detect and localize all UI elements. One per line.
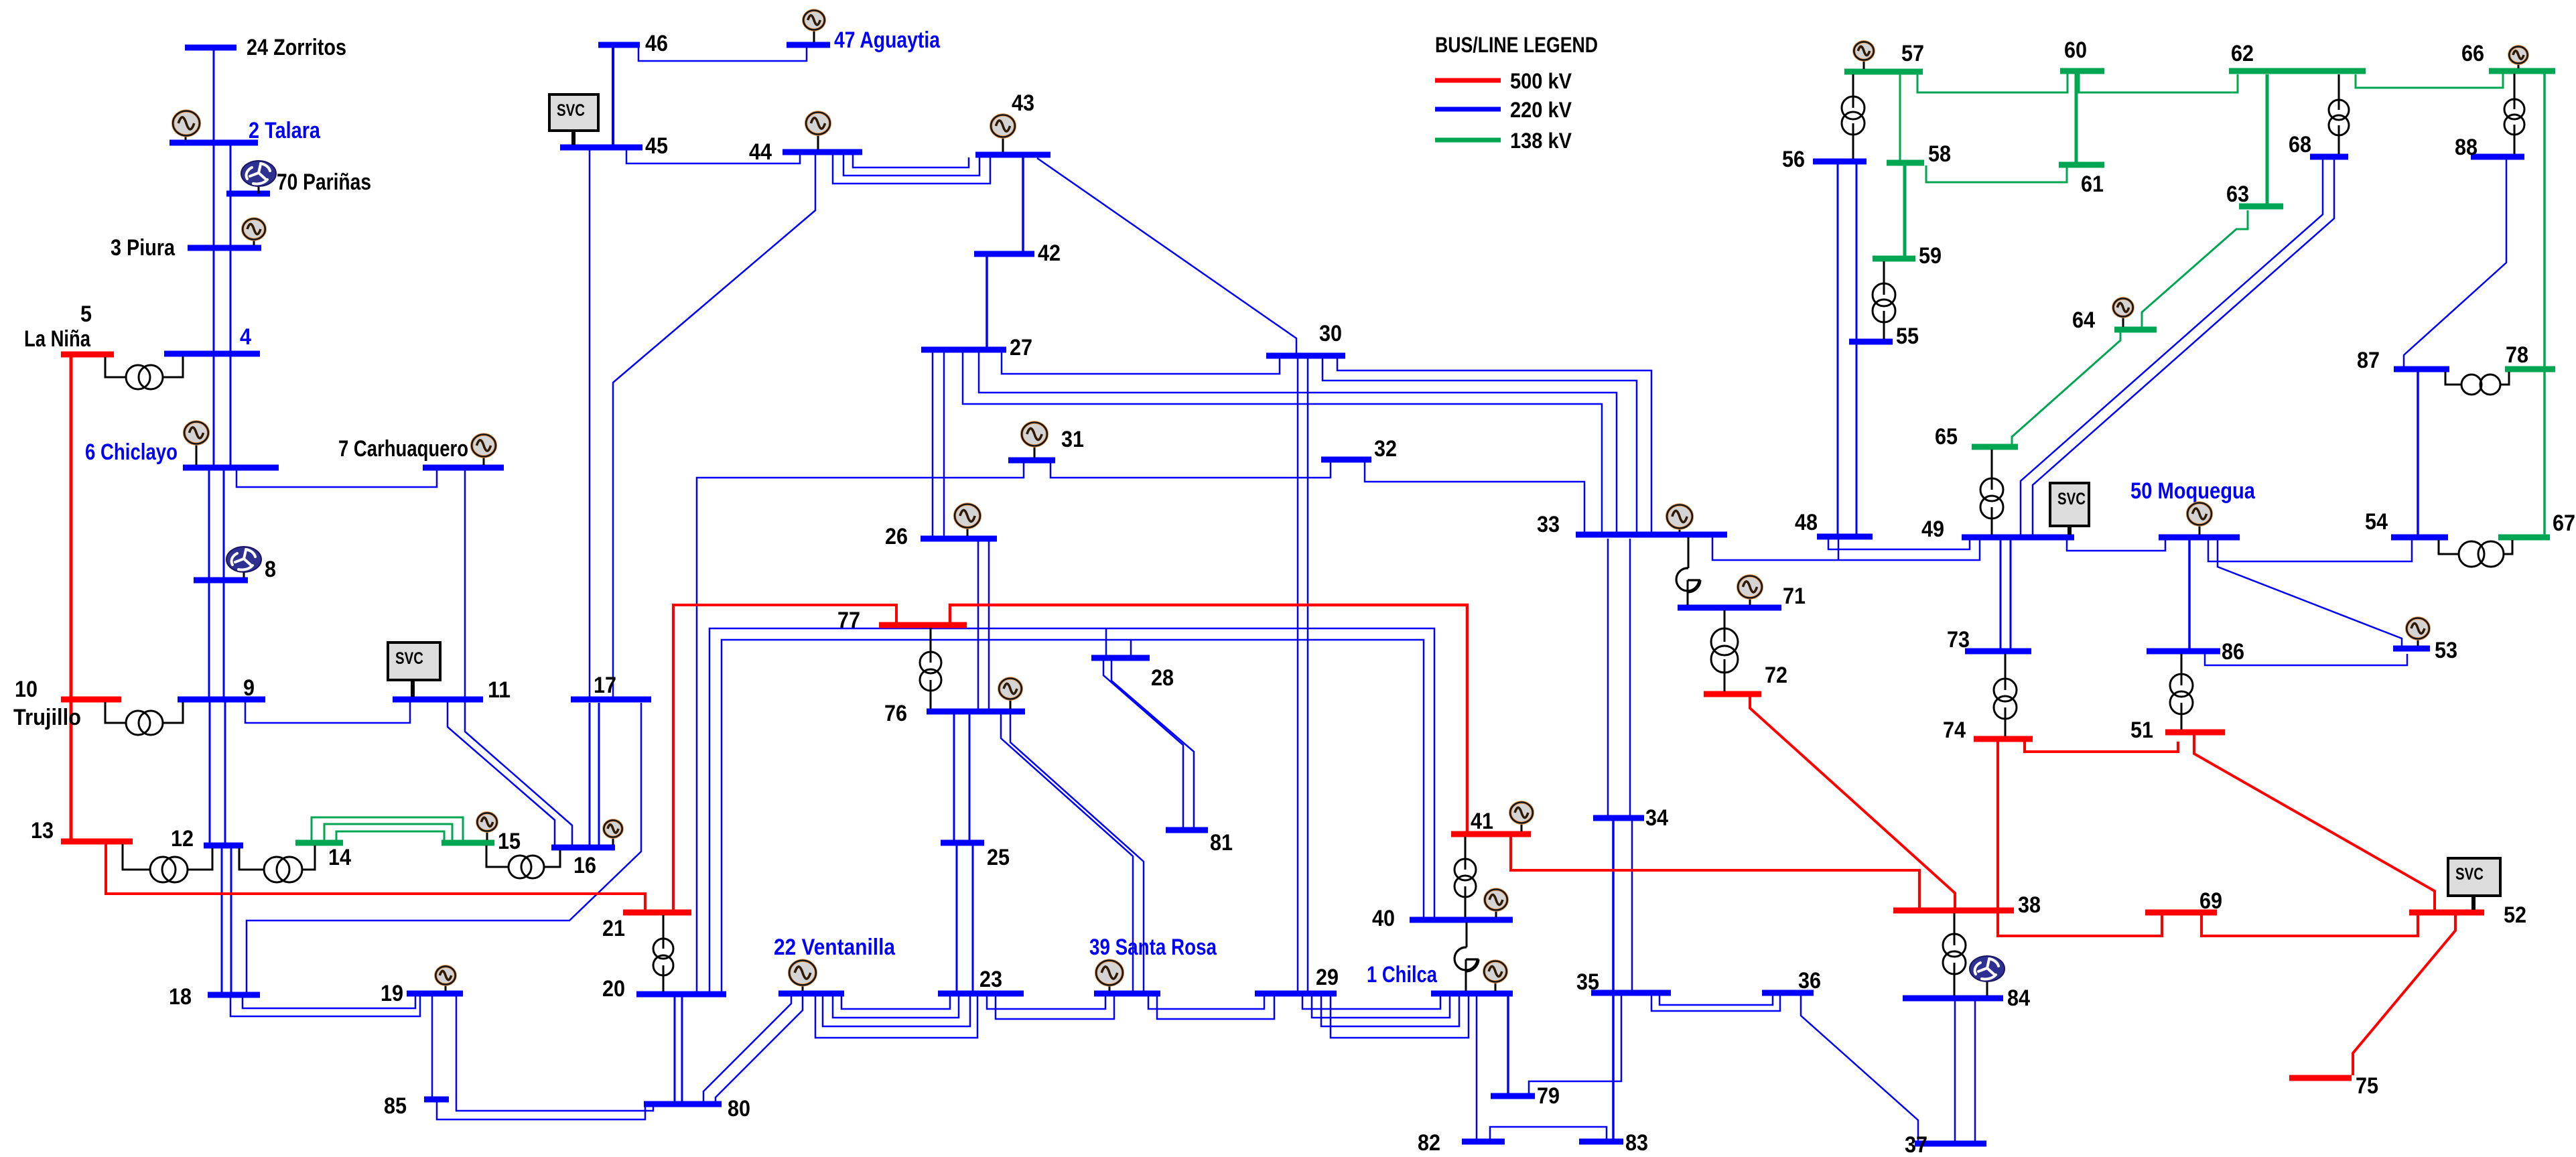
generator G33 bbox=[1667, 505, 1692, 533]
wire 14-15 a bbox=[312, 817, 463, 841]
svg-text:12: 12 bbox=[171, 826, 194, 852]
bus 53 bbox=[2393, 638, 2457, 663]
bus 13 bbox=[31, 818, 133, 843]
SVC 45 bbox=[549, 94, 598, 145]
wire 51-52 bbox=[2194, 735, 2435, 910]
svg-text:13: 13 bbox=[31, 818, 54, 843]
transformer T71-72 bbox=[1711, 610, 1738, 691]
wire 58-59 bbox=[1903, 165, 1907, 256]
generator G19 bbox=[435, 966, 455, 991]
bus 80 bbox=[644, 1096, 750, 1121]
bus 33 bbox=[1537, 512, 1727, 537]
wire 68-49 a bbox=[2021, 159, 2323, 535]
generator G43 bbox=[991, 115, 1015, 153]
legend 500 kV bbox=[1435, 69, 1572, 93]
svg-text:500 kV: 500 kV bbox=[1510, 69, 1572, 93]
wire 77-41 bbox=[950, 605, 1467, 831]
svg-text:56: 56 bbox=[1782, 147, 1805, 172]
svg-text:70 Pariñas: 70 Pariñas bbox=[277, 169, 371, 195]
wire 9-12 a bbox=[209, 702, 211, 843]
wire 22-23 c bbox=[823, 996, 970, 1026]
wire 60-61 bbox=[2075, 74, 2078, 162]
bus 38 bbox=[1893, 892, 2041, 918]
bus 47 bbox=[787, 27, 941, 53]
svg-text:19: 19 bbox=[381, 981, 403, 1006]
bus 81 bbox=[1166, 830, 1233, 856]
svg-text:La Niña: La Niña bbox=[24, 326, 91, 352]
wire 28-20 lower bbox=[722, 640, 1424, 992]
bus 10 bbox=[13, 677, 121, 730]
bus 34 bbox=[1593, 805, 1668, 831]
wire 69-52 bbox=[2201, 915, 2418, 936]
svg-text:85: 85 bbox=[384, 1093, 407, 1119]
svg-text:36: 36 bbox=[1798, 968, 1821, 994]
transformer T13-12 bbox=[123, 844, 212, 882]
bus 70 bbox=[226, 169, 371, 195]
svg-text:69: 69 bbox=[2199, 888, 2222, 914]
bus 17 bbox=[571, 673, 651, 699]
wire 26-76 a bbox=[977, 541, 979, 709]
generator G71 bbox=[1738, 576, 1762, 606]
svg-text:62: 62 bbox=[2231, 41, 2254, 66]
wire 11-16 a bbox=[448, 702, 555, 845]
bus 62 bbox=[2229, 41, 2366, 71]
wire 35-36 b bbox=[1651, 996, 1780, 1011]
svg-text:SVC: SVC bbox=[557, 101, 585, 120]
transformer T21-20 bbox=[653, 915, 673, 992]
bus 6 bbox=[85, 439, 279, 468]
wire 9-12 b bbox=[224, 702, 226, 843]
bus 42 bbox=[974, 241, 1061, 266]
bus 48 bbox=[1795, 510, 1873, 537]
wire 19-85 bbox=[431, 996, 433, 1097]
wire 82-83 bbox=[1490, 1127, 1607, 1139]
svg-text:75: 75 bbox=[2356, 1073, 2378, 1099]
bus 3 bbox=[111, 235, 261, 261]
wire 43-30 bbox=[1037, 158, 1296, 353]
bus 30 bbox=[1266, 321, 1345, 356]
wire 76-39 a bbox=[1001, 714, 1133, 991]
transformer T41-40 bbox=[1454, 837, 1476, 917]
bus 68 bbox=[2289, 132, 2348, 157]
generator G16 bbox=[604, 820, 622, 845]
svg-text:SVC: SVC bbox=[2057, 490, 2086, 508]
wire 50-54 bbox=[2208, 540, 2412, 561]
bus 9 bbox=[178, 675, 265, 701]
wire 45-17 bbox=[589, 150, 591, 697]
svg-text:44: 44 bbox=[749, 139, 772, 165]
bus 36 bbox=[1762, 968, 1821, 994]
svg-text:39 Santa Rosa: 39 Santa Rosa bbox=[1089, 935, 1217, 960]
wire 87-54 bbox=[2417, 372, 2419, 535]
wire 29-1 d bbox=[1331, 996, 1469, 1038]
svg-text:38: 38 bbox=[2018, 892, 2041, 918]
wind turbine W84 bbox=[1970, 956, 2005, 996]
bus 57 bbox=[1844, 41, 1924, 72]
svg-text:77: 77 bbox=[837, 608, 860, 633]
svg-text:76: 76 bbox=[884, 701, 907, 726]
wire 50-86 bbox=[2188, 540, 2191, 649]
wire 18-19 a bbox=[243, 996, 415, 1008]
wire 20-80 b bbox=[681, 997, 683, 1101]
transformer T62-68 bbox=[2329, 74, 2349, 154]
SVC 11 bbox=[388, 642, 440, 697]
wire 23-39 b bbox=[996, 996, 1114, 1019]
wire 35-79 bbox=[1529, 996, 1621, 1093]
svg-text:53: 53 bbox=[2435, 638, 2457, 663]
wire 17-18 bbox=[247, 703, 641, 992]
bus 18 bbox=[169, 984, 260, 1010]
wire 76-25 a bbox=[953, 714, 955, 840]
wire 27-26 b bbox=[943, 352, 945, 536]
svg-text:55: 55 bbox=[1896, 324, 1919, 349]
bus 40 bbox=[1372, 906, 1513, 931]
svg-text:4: 4 bbox=[240, 324, 251, 350]
wire 22-80 a bbox=[703, 996, 791, 1101]
wire 6-9 a bbox=[208, 470, 210, 697]
svg-text:BUS/LINE LEGEND: BUS/LINE LEGEND bbox=[1435, 33, 1598, 57]
bus 88 bbox=[2455, 135, 2524, 160]
bus 7 bbox=[338, 436, 504, 468]
SVC 49 bbox=[2050, 483, 2089, 535]
generator G44 bbox=[806, 113, 830, 150]
transformer T73-74 bbox=[1994, 654, 2017, 736]
wire 22-23 b bbox=[833, 996, 959, 1018]
svg-text:25: 25 bbox=[987, 845, 1010, 870]
bus 21 bbox=[602, 912, 691, 941]
svg-text:14: 14 bbox=[328, 845, 351, 870]
svg-text:61: 61 bbox=[2081, 172, 2104, 197]
wire 34-83 bbox=[1612, 821, 1615, 1139]
wire 29-1 b bbox=[1312, 996, 1450, 1018]
wire 31-32 bbox=[1050, 462, 1331, 478]
bus 71 bbox=[1678, 584, 1806, 609]
wire 84-37 b bbox=[1974, 1001, 1976, 1141]
generator G3 bbox=[243, 219, 265, 246]
generator G40 bbox=[1485, 890, 1507, 918]
wire 84-37 a bbox=[1954, 1001, 1956, 1141]
wire 46-47 bbox=[638, 48, 807, 61]
generator G76 bbox=[999, 679, 1022, 709]
wire 48 stub bbox=[1838, 539, 1840, 560]
bus 58 bbox=[1887, 141, 1951, 167]
svg-text:6 Chiclayo: 6 Chiclayo bbox=[85, 439, 178, 465]
generator G39 bbox=[1096, 961, 1123, 991]
bus 74 bbox=[1943, 718, 2033, 743]
svg-text:72: 72 bbox=[1765, 663, 1787, 688]
bus 23 bbox=[938, 967, 1024, 994]
svg-text:83: 83 bbox=[1625, 1130, 1648, 1156]
svg-text:81: 81 bbox=[1210, 830, 1233, 856]
wire 33-34 b bbox=[1629, 539, 1631, 815]
transformer T66-88 bbox=[2504, 74, 2524, 154]
generator G15 bbox=[477, 813, 496, 840]
bus 67 bbox=[2498, 511, 2575, 537]
svg-text:27: 27 bbox=[1010, 335, 1032, 360]
bus 41 bbox=[1451, 809, 1531, 834]
wire 18-19 b bbox=[230, 996, 420, 1016]
generator G2 bbox=[173, 111, 200, 140]
transformer T15-16 bbox=[486, 845, 560, 878]
wire 36-37 bbox=[1801, 996, 1918, 1141]
wind turbine W8 bbox=[226, 547, 261, 577]
wire 33-34 a bbox=[1607, 539, 1609, 815]
generator G7 bbox=[472, 435, 496, 466]
generator G22 bbox=[789, 961, 816, 991]
bus 14 bbox=[295, 843, 351, 870]
wire 52-75 bbox=[2353, 915, 2455, 1075]
wire 74-38 bbox=[1996, 742, 1999, 908]
svg-text:2 Talara: 2 Talara bbox=[249, 118, 321, 143]
bus 78 bbox=[2505, 342, 2555, 369]
svg-text:9: 9 bbox=[243, 675, 255, 701]
bus 29 bbox=[1255, 965, 1339, 994]
transformer T57-56 bbox=[1842, 74, 1865, 159]
wire 72-38 bbox=[1750, 697, 1955, 908]
svg-text:37: 37 bbox=[1905, 1132, 1927, 1157]
svg-text:30: 30 bbox=[1319, 321, 1342, 346]
bus 86 bbox=[2147, 639, 2244, 665]
wire 27-33 b bbox=[963, 352, 1602, 532]
wire 30-29 a bbox=[1297, 358, 1299, 991]
generator G53 bbox=[2406, 618, 2429, 646]
wire 39-29 b bbox=[1157, 996, 1274, 1019]
bus 72 bbox=[1704, 663, 1787, 694]
svg-text:18: 18 bbox=[169, 984, 192, 1010]
generator G66 bbox=[2509, 46, 2527, 68]
bus 39 bbox=[1089, 935, 1217, 994]
svg-text:40: 40 bbox=[1372, 906, 1395, 931]
wire 1-82 bbox=[1476, 996, 1478, 1139]
svg-text:84: 84 bbox=[2007, 985, 2030, 1011]
svg-text:3 Piura: 3 Piura bbox=[111, 235, 176, 261]
svg-text:64: 64 bbox=[2072, 308, 2095, 333]
wire 34-35 bbox=[1631, 821, 1633, 990]
wire 9-11 bbox=[245, 702, 410, 723]
wire 49-50 bbox=[2067, 540, 2165, 551]
svg-text:32: 32 bbox=[1374, 436, 1397, 462]
svg-text:50 Moquegua: 50 Moquegua bbox=[2130, 478, 2256, 504]
wire 44-43 c bbox=[833, 155, 990, 184]
wire 35-36 a bbox=[1659, 996, 1773, 1005]
wire 27-33 a bbox=[979, 352, 1617, 532]
bus 61 bbox=[2059, 165, 2104, 197]
bus 45 bbox=[560, 133, 668, 159]
SVC 52 bbox=[2448, 858, 2500, 910]
transformer T86-51 bbox=[2170, 654, 2193, 730]
svg-text:11: 11 bbox=[488, 677, 511, 703]
wire 60-62 bbox=[2079, 74, 2238, 92]
wire 14-15 b bbox=[324, 824, 452, 841]
svg-text:33: 33 bbox=[1537, 512, 1560, 537]
svg-text:16: 16 bbox=[573, 853, 596, 878]
svg-text:41: 41 bbox=[1471, 809, 1493, 834]
svg-text:220 kV: 220 kV bbox=[1510, 98, 1572, 122]
svg-text:15: 15 bbox=[498, 829, 521, 854]
wire 50-53 bbox=[2218, 540, 2402, 646]
wire 31-20 bbox=[697, 463, 1024, 992]
generator G47 bbox=[803, 11, 825, 43]
bus 82 bbox=[1418, 1130, 1505, 1156]
wire 85-80 bbox=[437, 1102, 645, 1119]
svg-text:80: 80 bbox=[728, 1096, 750, 1121]
bus 19 bbox=[381, 981, 463, 1006]
wire 14-15 c bbox=[336, 831, 444, 841]
svg-text:SVC: SVC bbox=[2455, 865, 2484, 884]
svg-text:28: 28 bbox=[1151, 665, 1174, 691]
svg-text:5: 5 bbox=[80, 301, 92, 327]
transformer T10-9 bbox=[105, 702, 183, 735]
svg-text:46: 46 bbox=[645, 31, 668, 56]
transformer T54-67 bbox=[2439, 540, 2512, 567]
svg-text:SVC: SVC bbox=[395, 649, 423, 668]
wire 33-49 bbox=[1712, 537, 1980, 560]
wire 12-18 b bbox=[230, 848, 232, 992]
svg-text:52: 52 bbox=[2504, 902, 2526, 928]
wire 32-33 bbox=[1365, 462, 1584, 532]
svg-text:63: 63 bbox=[2226, 182, 2249, 207]
bus 26 bbox=[885, 524, 997, 549]
bus 85 bbox=[384, 1093, 449, 1119]
wire 2-3-4-6 right bbox=[230, 145, 232, 465]
bus 28 bbox=[1091, 658, 1174, 691]
svg-text:26: 26 bbox=[885, 524, 908, 549]
bus 43 bbox=[975, 90, 1050, 155]
wire 1-79 bbox=[1507, 996, 1509, 1093]
wire 17-16 b bbox=[598, 703, 600, 845]
bus 11 bbox=[393, 677, 511, 703]
bus 1 bbox=[1367, 962, 1513, 994]
svg-text:54: 54 bbox=[2365, 509, 2388, 535]
bus 4 bbox=[164, 324, 260, 354]
wire 17-16 a bbox=[589, 703, 591, 845]
svg-text:51: 51 bbox=[2130, 718, 2153, 743]
wire 30-33 b bbox=[1323, 358, 1637, 532]
bus 73 bbox=[1947, 627, 2031, 653]
wire 26-76 b bbox=[988, 541, 990, 709]
svg-text:58: 58 bbox=[1928, 141, 1951, 167]
bus 63 bbox=[2226, 182, 2283, 207]
wire 29-1 a bbox=[1302, 996, 1440, 1009]
wire 7-11 bbox=[464, 470, 466, 697]
wire 49-73 b bbox=[2010, 540, 2012, 649]
bus 2 bbox=[170, 118, 321, 143]
svg-text:57: 57 bbox=[1901, 41, 1924, 66]
wire 86-53 bbox=[2205, 654, 2407, 665]
svg-text:49: 49 bbox=[1921, 517, 1944, 542]
svg-text:35: 35 bbox=[1576, 969, 1599, 995]
svg-text:8: 8 bbox=[265, 557, 276, 582]
svg-text:86: 86 bbox=[2222, 639, 2244, 665]
svg-text:43: 43 bbox=[1012, 90, 1034, 116]
bus 27 bbox=[921, 335, 1032, 360]
wire 44-17 bbox=[613, 155, 815, 697]
wire 27-26 a bbox=[932, 352, 934, 536]
transformer T65-49 bbox=[1980, 450, 2003, 535]
wire 22-23 d bbox=[815, 996, 977, 1038]
wire 28-81 b bbox=[1111, 661, 1194, 827]
wire 28 stub lower bbox=[1130, 640, 1132, 655]
svg-text:67: 67 bbox=[2553, 511, 2575, 536]
bus 69 bbox=[2145, 888, 2222, 914]
bus 5 bbox=[24, 301, 114, 354]
generator G64 bbox=[2113, 298, 2132, 327]
shunt 33-71 bbox=[1676, 537, 1700, 605]
svg-text:1 Chilca: 1 Chilca bbox=[1367, 962, 1438, 988]
wire 46-45 bbox=[612, 48, 614, 145]
wire 39-29 a bbox=[1148, 996, 1264, 1009]
svg-text:60: 60 bbox=[2064, 38, 2087, 63]
svg-text:21: 21 bbox=[602, 916, 625, 941]
wire 25-23 a bbox=[956, 845, 958, 991]
bus 16 bbox=[551, 847, 615, 878]
wire 27-30 bbox=[1002, 352, 1280, 374]
bus 49 bbox=[1921, 517, 2074, 542]
bus 50 bbox=[2130, 478, 2256, 537]
wire 62-63 bbox=[2266, 74, 2269, 204]
wire 48-49 bbox=[1828, 539, 1970, 549]
wire 41-38 bbox=[1511, 837, 1919, 908]
bus 15 bbox=[442, 829, 521, 854]
svg-text:7 Carhuaquero: 7 Carhuaquero bbox=[338, 436, 468, 462]
wire 23-39 a bbox=[987, 996, 1105, 1009]
wire 57-58 bbox=[1899, 74, 1901, 160]
svg-text:88: 88 bbox=[2455, 135, 2478, 160]
transformer T77-76 bbox=[920, 628, 941, 709]
generator G1 bbox=[1484, 961, 1507, 992]
generator G50 bbox=[2187, 503, 2212, 535]
svg-text:66: 66 bbox=[2461, 41, 2484, 66]
wire 22-80 b bbox=[716, 996, 803, 1101]
bus 12 bbox=[171, 826, 243, 852]
svg-text:20: 20 bbox=[602, 976, 625, 1002]
bus 54 bbox=[2365, 509, 2448, 537]
bus 8 bbox=[194, 557, 276, 582]
svg-text:Trujillo: Trujillo bbox=[13, 705, 81, 730]
wire 45-44 bbox=[626, 150, 800, 163]
wire 6-7 bbox=[236, 470, 437, 487]
bus 64 bbox=[2072, 308, 2157, 333]
bus 60 bbox=[2060, 38, 2104, 71]
legend 138 kV bbox=[1435, 129, 1572, 153]
svg-text:24 Zorritos: 24 Zorritos bbox=[247, 35, 346, 60]
svg-text:48: 48 bbox=[1795, 510, 1818, 535]
bus 52 bbox=[2409, 902, 2526, 928]
transformer T59-55 bbox=[1873, 261, 1895, 339]
bus 24 bbox=[185, 35, 346, 60]
svg-text:74: 74 bbox=[1943, 718, 1966, 743]
wire 76-39 b bbox=[1010, 714, 1144, 991]
wire 74-51 bbox=[2025, 742, 2178, 752]
bus 55 bbox=[1849, 324, 1919, 349]
wire 21-77 bbox=[673, 605, 896, 910]
bus 75 bbox=[2289, 1073, 2378, 1099]
wire 64-65 bbox=[2012, 332, 2120, 444]
svg-text:87: 87 bbox=[2357, 348, 2380, 373]
svg-text:42: 42 bbox=[1038, 241, 1061, 266]
wire 6-9 b bbox=[223, 470, 225, 697]
bus 59 bbox=[1873, 243, 1942, 269]
generator G26 bbox=[955, 504, 980, 537]
wire 29-1 c bbox=[1321, 996, 1459, 1026]
wire 22-23 a bbox=[841, 996, 950, 1009]
wire 57-60 bbox=[1917, 74, 2067, 92]
wire 58-61 bbox=[1926, 165, 2067, 182]
svg-text:65: 65 bbox=[1935, 424, 1958, 450]
wire 30-29 b bbox=[1307, 358, 1309, 991]
transformer T38-84 bbox=[1943, 913, 1966, 996]
wire 42-27 bbox=[986, 257, 988, 347]
